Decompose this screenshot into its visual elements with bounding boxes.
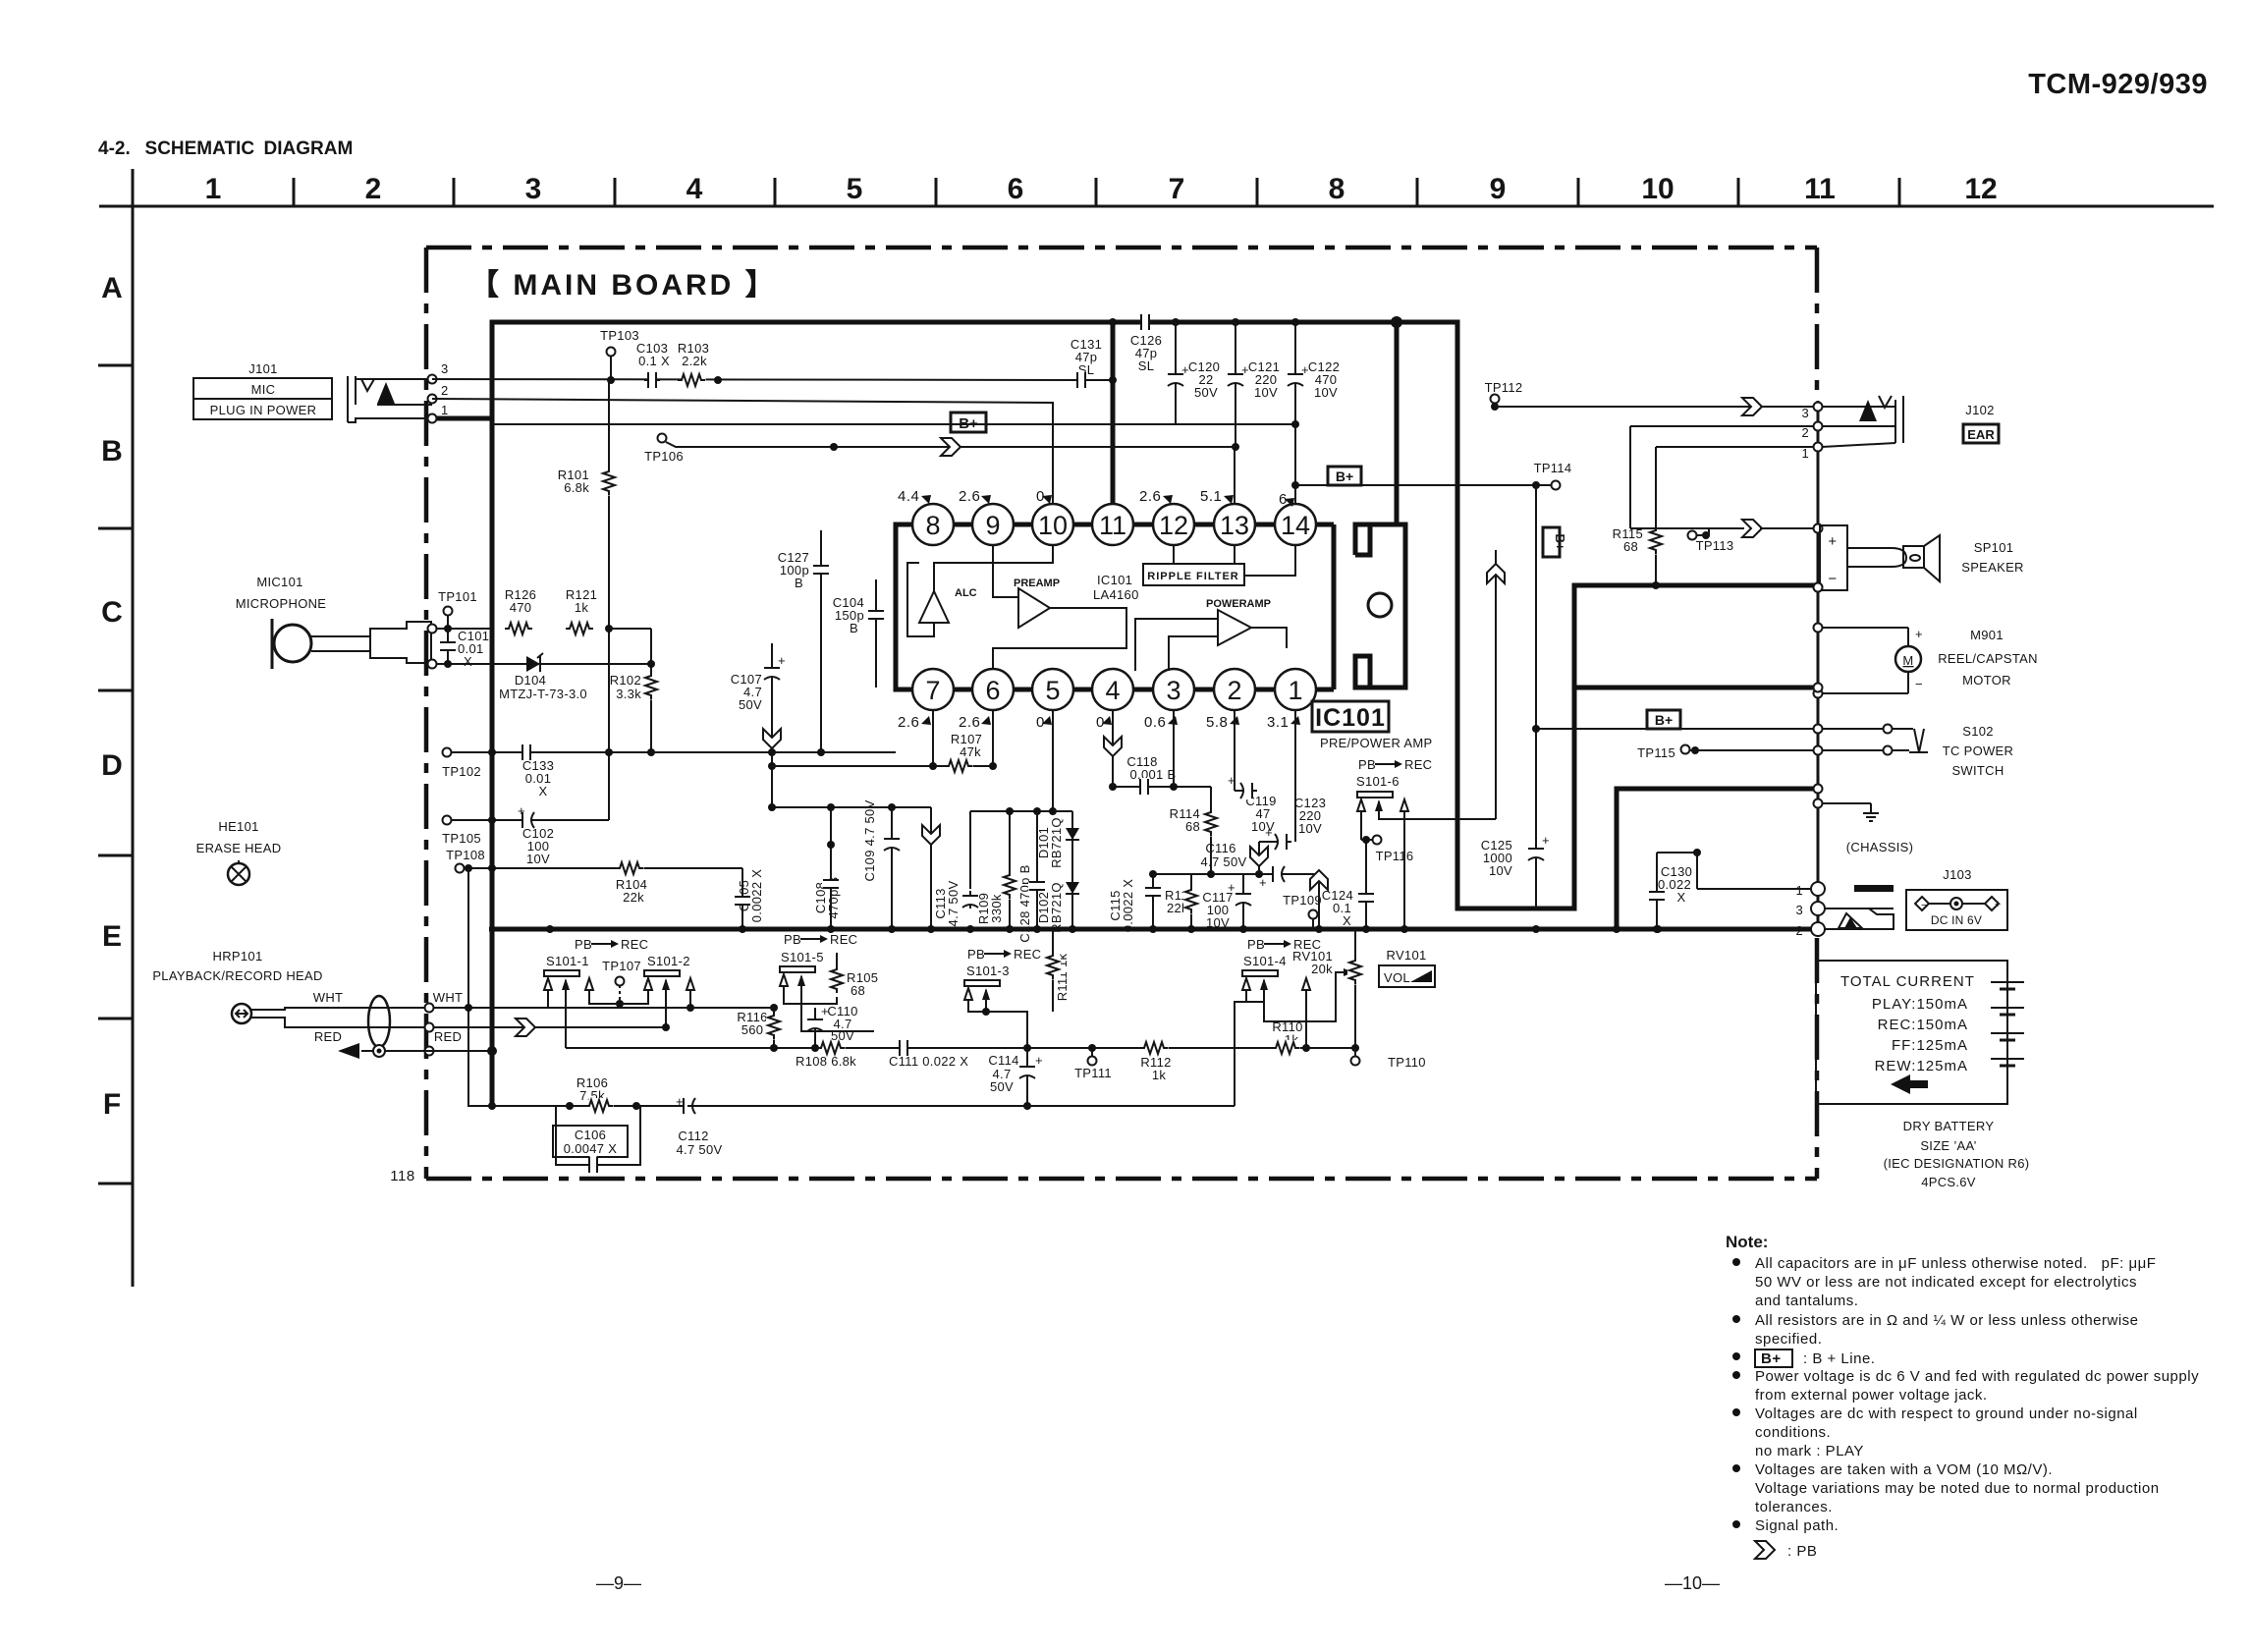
svg-text:5: 5 — [1045, 676, 1060, 705]
svg-text:11: 11 — [1804, 173, 1836, 205]
svg-text:RIPPLE FILTER: RIPPLE FILTER — [1147, 571, 1238, 582]
wire pin13 stub — [1234, 447, 1235, 504]
signal arrow down mid — [930, 807, 932, 929]
wire J102 pin1 row — [1656, 446, 1814, 448]
svg-text:X: X — [539, 784, 548, 798]
svg-text:X: X — [464, 654, 472, 669]
svg-text:SIZE ’AA’: SIZE ’AA’ — [1920, 1138, 1976, 1153]
svg-text:RB721Q: RB721Q — [1049, 817, 1064, 868]
svg-text:−: − — [1921, 900, 1927, 911]
svg-text:0.0022 X: 0.0022 X — [1121, 879, 1135, 932]
svg-text:F: F — [103, 1088, 121, 1121]
head connector — [232, 1004, 251, 1023]
svg-text:50V: 50V — [1194, 385, 1218, 400]
svg-text:C114: C114 — [988, 1053, 1018, 1068]
svg-text:22k: 22k — [623, 890, 644, 905]
pin 13 — [1214, 504, 1255, 545]
J101 MIC box — [193, 378, 332, 399]
wire RED row — [425, 1023, 434, 1032]
signal arrow head out — [516, 1019, 535, 1036]
svg-text:C112: C112 — [678, 1129, 708, 1143]
svg-text:: PB: : PB — [1787, 1543, 1817, 1560]
bus open circles — [1814, 583, 1823, 592]
svg-text:3.1: 3.1 — [1267, 714, 1289, 731]
pin 7 — [912, 669, 954, 710]
svg-text:PLAY:150mA: PLAY:150mA — [1872, 996, 1968, 1013]
svg-text:3: 3 — [1795, 903, 1803, 917]
wire mic cold row — [431, 663, 492, 665]
svg-text:S101-6: S101-6 — [1356, 774, 1400, 789]
svg-text:: B + Line.: : B + Line. — [1803, 1350, 1875, 1367]
svg-text:0.0022 X: 0.0022 X — [749, 869, 764, 922]
svg-text:3: 3 — [441, 361, 449, 376]
J101 PLUG IN POWER box — [193, 399, 332, 419]
J101 pin 1 — [428, 414, 437, 423]
svg-text:TC POWER: TC POWER — [1943, 743, 2013, 758]
svg-text:MIC101: MIC101 — [256, 575, 302, 589]
svg-text:68: 68 — [1185, 819, 1200, 834]
svg-text:D104: D104 — [515, 673, 546, 688]
svg-text:+: + — [1228, 773, 1235, 788]
wire WHT row — [425, 1004, 434, 1013]
svg-text:Voltage variations may be note: Voltage variations may be noted due to n… — [1755, 1480, 2160, 1497]
wire ground bottom bus — [489, 927, 1818, 932]
svg-text:FF:125mA: FF:125mA — [1892, 1037, 1968, 1054]
svg-text:4: 4 — [1105, 676, 1120, 705]
wire pin11 supply stub — [1111, 322, 1116, 505]
svg-text:6.8k: 6.8k — [564, 480, 589, 495]
B+ vertical label box — [1543, 527, 1560, 557]
IC101 reference label box — [1312, 701, 1389, 732]
svg-text:TP112: TP112 — [1485, 380, 1523, 395]
svg-text:J102: J102 — [1965, 403, 1994, 417]
svg-text:10V: 10V — [1254, 385, 1278, 400]
wire pin6 stub — [992, 710, 994, 766]
svg-text:2: 2 — [1795, 923, 1803, 938]
svg-text:4.7 50V: 4.7 50V — [1201, 854, 1247, 869]
ruler ticks — [294, 178, 1899, 206]
svg-text:+: + — [1035, 1053, 1043, 1068]
svg-text:2: 2 — [441, 383, 449, 398]
svg-text:2.6: 2.6 — [1139, 488, 1161, 505]
signal arrow down right — [1258, 842, 1260, 874]
capacitor C106 box — [553, 1126, 628, 1157]
junction on bus — [1391, 316, 1402, 328]
svg-text:TP114: TP114 — [1534, 461, 1572, 475]
capacitor C133 — [519, 743, 534, 761]
signal arrow speaker row — [1742, 520, 1762, 537]
voltage 2.6 pin12 — [1139, 488, 1173, 505]
J103 DC IN box — [1906, 890, 2007, 930]
svg-text:PB: PB — [1358, 757, 1376, 772]
svg-text:13: 13 — [1220, 511, 1249, 540]
wire pin5 stub down — [1052, 710, 1054, 811]
pin 1 — [1275, 669, 1316, 710]
svg-text:2.6: 2.6 — [959, 714, 980, 731]
wire row TP102 extension — [651, 751, 896, 753]
svg-text:PB: PB — [575, 937, 592, 952]
main board dashed border right — [1815, 248, 1820, 401]
svg-text:B+: B+ — [1655, 712, 1673, 728]
wire row 1126 right part — [687, 1105, 1235, 1107]
svg-text:10: 10 — [1641, 173, 1674, 205]
svg-text:−: − — [1915, 677, 1923, 691]
svg-text:WHT: WHT — [433, 990, 464, 1005]
svg-text:2: 2 — [1227, 676, 1241, 705]
svg-text:B: B — [795, 576, 803, 590]
capacitor C122 — [1291, 318, 1299, 326]
svg-text:REW:125mA: REW:125mA — [1875, 1058, 1968, 1074]
svg-text:DRY BATTERY: DRY BATTERY — [1903, 1119, 1995, 1133]
svg-text:1k: 1k — [575, 600, 589, 615]
svg-text:B+: B+ — [1761, 1350, 1782, 1367]
svg-text:8: 8 — [1329, 173, 1345, 205]
B+ label box pins — [1328, 467, 1361, 485]
svg-text:+: + — [1259, 875, 1267, 890]
svg-text:4-2. SCHEMATIC DIAGRAM: 4-2. SCHEMATIC DIAGRAM — [98, 138, 353, 159]
wire thick battery branch — [1617, 789, 1814, 929]
chassis ground — [1814, 799, 1823, 808]
svg-text:C109 4.7 50V: C109 4.7 50V — [862, 799, 877, 881]
svg-text:E: E — [102, 920, 122, 953]
svg-text:A: A — [101, 272, 123, 304]
svg-text:R108 6.8k: R108 6.8k — [796, 1054, 856, 1069]
svg-text:3: 3 — [1801, 406, 1809, 420]
svg-text:+: + — [1265, 825, 1273, 840]
signal arrow preamp in — [941, 438, 961, 456]
wire TP108 row — [492, 867, 742, 869]
pin 9 — [972, 504, 1014, 545]
wire pin3 stub down — [1173, 710, 1175, 787]
signal arrow to ear — [1742, 398, 1762, 415]
pin 10 — [1032, 504, 1073, 545]
svg-text:TP106: TP106 — [644, 449, 684, 464]
wire mic to connector — [311, 635, 370, 637]
wire J103 pin1 row — [1697, 888, 1811, 890]
voltage 0 pin4 — [1096, 714, 1112, 731]
svg-text:0.001 B: 0.001 B — [1130, 767, 1177, 782]
svg-text:TP105: TP105 — [442, 831, 481, 846]
svg-text:TP102: TP102 — [442, 764, 481, 779]
POWERAMP — [1218, 610, 1251, 645]
svg-text:+: + — [1915, 627, 1923, 641]
svg-text:B+: B+ — [959, 415, 978, 432]
voltage 6 pin14 — [1279, 491, 1294, 508]
svg-text:Power voltage is dc 6 V and fe: Power voltage is dc 6 V and fed with reg… — [1755, 1368, 2199, 1385]
svg-text:1: 1 — [1795, 883, 1803, 898]
wire B+ top bus — [492, 322, 1818, 929]
svg-text:4.4: 4.4 — [898, 488, 919, 505]
svg-text:RB721Q: RB721Q — [1049, 882, 1064, 933]
svg-text:8: 8 — [925, 511, 940, 540]
svg-text:B+: B+ — [1336, 468, 1353, 484]
wire row 1067 — [566, 1047, 1355, 1049]
svg-text:12: 12 — [1964, 173, 1997, 205]
wire left edge lower extension — [490, 929, 495, 1106]
svg-text:REC: REC — [1014, 947, 1041, 962]
wire J101 pin2 branch to pin10 — [432, 399, 1053, 504]
svg-text:TP101: TP101 — [438, 589, 477, 604]
svg-text:TP116: TP116 — [1376, 849, 1414, 863]
wire J101 pin1 thick — [432, 416, 492, 421]
B+ label box mid — [951, 413, 986, 432]
svg-text:47k: 47k — [960, 744, 981, 759]
svg-text:R102: R102 — [610, 673, 641, 688]
wire mic line row — [432, 379, 1081, 380]
wire ALC feedback — [907, 563, 934, 636]
left axis ticks — [98, 365, 133, 1184]
svg-text:118: 118 — [390, 1168, 414, 1184]
svg-text:—9—: —9— — [596, 1573, 641, 1593]
signal arrow down left of pin7 — [763, 729, 781, 748]
svg-text:ALC: ALC — [955, 587, 977, 599]
svg-text:1: 1 — [205, 173, 222, 205]
svg-text:PB: PB — [967, 947, 985, 962]
svg-text:B+: B+ — [1553, 534, 1567, 551]
svg-text:+: + — [821, 1004, 829, 1019]
svg-text:from external power voltage ja: from external power voltage jack. — [1755, 1387, 1988, 1404]
svg-text:REEL/CAPSTAN: REEL/CAPSTAN — [1938, 651, 2038, 666]
svg-text:C106: C106 — [575, 1128, 606, 1142]
svg-text:S101-3: S101-3 — [966, 964, 1010, 978]
svg-text:5.1: 5.1 — [1200, 488, 1222, 505]
wire S101-6 right stub — [1403, 811, 1405, 929]
svg-text:50 WV or less are not indicate: 50 WV or less are not indicated except f… — [1755, 1274, 2137, 1291]
svg-text:+: + — [518, 803, 525, 818]
voltage 5.1 pin13 — [1200, 488, 1234, 505]
svg-text:7: 7 — [1169, 173, 1185, 205]
svg-text:All capacitors are in μF unles: All capacitors are in μF unless otherwis… — [1755, 1255, 2156, 1272]
svg-text:(CHASSIS): (CHASSIS) — [1846, 840, 1913, 854]
svg-text:11: 11 — [1099, 511, 1126, 540]
left axis line — [132, 169, 135, 1287]
svg-text:and tantalums.: and tantalums. — [1755, 1293, 1858, 1309]
svg-text:0.6: 0.6 — [1144, 714, 1166, 731]
svg-text:J103: J103 — [1943, 867, 1971, 882]
svg-text:IC101: IC101 — [1315, 704, 1386, 732]
IC101 right body with notches — [1355, 524, 1405, 688]
svg-text:TP115: TP115 — [1637, 745, 1675, 760]
svg-text:PLAYBACK/RECORD HEAD: PLAYBACK/RECORD HEAD — [152, 968, 322, 983]
svg-text:EAR: EAR — [1967, 427, 1995, 442]
svg-text:SP101: SP101 — [1974, 540, 2014, 555]
J102 jack pins — [1814, 403, 1823, 412]
voltage 0.6 pin3 — [1144, 714, 1178, 731]
PREAMP — [1018, 588, 1050, 628]
svg-text:50V: 50V — [990, 1079, 1014, 1094]
svg-text:MTZJ-T-73-3.0: MTZJ-T-73-3.0 — [499, 687, 587, 701]
svg-text:S101-1: S101-1 — [546, 954, 589, 968]
wire poweramp lower input — [1169, 636, 1218, 671]
svg-text:SWITCH: SWITCH — [1951, 763, 2004, 778]
left axis row letters — [101, 272, 123, 1121]
wire TP114 vertical to C125 — [1535, 485, 1537, 909]
svg-text:6: 6 — [1008, 173, 1024, 205]
voltage 0 pin5 — [1036, 714, 1052, 731]
svg-text:2: 2 — [1801, 425, 1809, 440]
wire S102 upper row — [1536, 728, 1814, 730]
svg-text:68: 68 — [1623, 539, 1638, 554]
svg-text:MIC: MIC — [251, 382, 276, 397]
svg-text:RED: RED — [314, 1029, 342, 1044]
node TP106 — [658, 434, 667, 443]
signal arrow pin4 — [1112, 710, 1114, 787]
voltage 3.1 pin1 — [1267, 714, 1300, 731]
svg-text:+: + — [1542, 833, 1550, 848]
svg-text:B: B — [850, 621, 858, 635]
svg-text:TOTAL CURRENT: TOTAL CURRENT — [1840, 973, 1975, 990]
svg-text:TP109: TP109 — [1283, 893, 1322, 908]
svg-text:TP113: TP113 — [1696, 538, 1734, 553]
ALC amp — [919, 591, 949, 623]
svg-text:J101: J101 — [248, 361, 277, 376]
svg-text:+: + — [1828, 533, 1837, 550]
pin 2 — [1214, 669, 1255, 710]
node TP110 — [1351, 1044, 1359, 1052]
pin 3 — [1153, 669, 1194, 710]
svg-text:C: C — [101, 596, 123, 629]
voltage 2.6 pin7 — [898, 714, 931, 731]
svg-text:Note:: Note: — [1726, 1233, 1768, 1251]
wire shield ground row — [425, 1047, 434, 1056]
svg-text:TP110: TP110 — [1388, 1055, 1426, 1070]
svg-text:12: 12 — [1159, 511, 1188, 540]
pin 8 — [912, 504, 954, 545]
svg-text:S101-2: S101-2 — [647, 954, 690, 968]
EAR box — [1963, 424, 1999, 443]
svg-text:3: 3 — [525, 173, 542, 205]
svg-text:M: M — [1902, 653, 1913, 668]
svg-text:50V: 50V — [739, 697, 762, 712]
ruler top line — [99, 205, 2214, 208]
pin 4 — [1092, 669, 1133, 710]
svg-text:0.1 X: 0.1 X — [638, 354, 670, 368]
wire thick branch to S102/B+ row — [1574, 686, 1814, 690]
main vertical bus right — [1817, 401, 1820, 935]
wire preamp output loop — [993, 608, 1126, 669]
capacitor C101 — [447, 629, 449, 664]
svg-text:SPEAKER: SPEAKER — [1961, 560, 2024, 575]
svg-text:C128 470p B: C128 470p B — [1017, 864, 1032, 942]
svg-text:4PCS.6V: 4PCS.6V — [1921, 1175, 1976, 1189]
wire pin9 to preamp — [993, 545, 1018, 597]
svg-text:TP108: TP108 — [446, 848, 485, 862]
svg-text:10V: 10V — [526, 852, 550, 866]
wire ripple filter to pin14 — [1244, 545, 1295, 576]
wire S101-1 to bus — [547, 990, 549, 1008]
J103 plug outline — [1825, 909, 1894, 929]
svg-text:SL: SL — [1138, 358, 1155, 373]
voltage 0 pin10 — [1036, 488, 1052, 505]
svg-text:+: + — [1228, 880, 1235, 895]
svg-text:specified.: specified. — [1755, 1331, 1822, 1348]
battery box — [1816, 961, 2007, 1104]
svg-text:10V: 10V — [1298, 821, 1322, 836]
svg-text:560: 560 — [741, 1022, 764, 1037]
voltage 4.4 pin8 — [898, 488, 931, 505]
svg-text:4.7 50V: 4.7 50V — [677, 1142, 723, 1157]
wire IC supply stub — [1395, 322, 1400, 524]
svg-text:9: 9 — [1490, 173, 1507, 205]
svg-text:TCM-929/939: TCM-929/939 — [2028, 69, 2208, 100]
wire pin7 stub — [932, 710, 934, 766]
svg-text:2.2k: 2.2k — [682, 354, 707, 368]
svg-text:3: 3 — [1166, 676, 1180, 705]
svg-text:ERASE HEAD: ERASE HEAD — [196, 841, 282, 855]
svg-text:HE101: HE101 — [218, 819, 258, 834]
svg-text:M901: M901 — [1970, 628, 2004, 642]
ruler column numbers — [205, 173, 1998, 205]
motor M901 — [1814, 624, 1823, 633]
svg-text:—10—: —10— — [1665, 1573, 1720, 1593]
svg-text:1: 1 — [441, 403, 449, 417]
wire J102 pin3 row — [1495, 406, 1814, 408]
node TP116 — [1360, 811, 1362, 840]
wire S101-4 stubs — [1246, 990, 1264, 1002]
J101 jack symbol — [348, 376, 432, 422]
svg-text:1: 1 — [1288, 676, 1302, 705]
svg-text:RV101: RV101 — [1386, 948, 1426, 963]
svg-text:5.8: 5.8 — [1206, 714, 1228, 731]
voltage 5.8 pin2 — [1206, 714, 1239, 731]
wire mid row upper — [970, 810, 1072, 812]
svg-text:conditions.: conditions. — [1755, 1424, 1831, 1441]
svg-text:TP103: TP103 — [600, 328, 639, 343]
svg-text:S101-4: S101-4 — [1243, 954, 1287, 968]
wire poweramp input — [1135, 619, 1218, 671]
svg-text:1: 1 — [1801, 446, 1809, 461]
svg-text:IC101: IC101 — [1097, 573, 1132, 587]
svg-text:【 MAIN BOARD 】: 【 MAIN BOARD 】 — [469, 269, 778, 302]
svg-text:PRE/POWER AMP: PRE/POWER AMP — [1320, 736, 1432, 750]
svg-text:Voltages are dc with respect t: Voltages are dc with respect to ground u… — [1755, 1405, 2138, 1422]
svg-text:C116: C116 — [1205, 841, 1235, 855]
svg-text:D: D — [101, 749, 123, 782]
svg-text:+: + — [1995, 899, 2001, 910]
wire pin13 to ripple filter — [1234, 545, 1235, 564]
svg-text:TP111: TP111 — [1074, 1066, 1112, 1080]
svg-text:0.022: 0.022 — [1658, 877, 1691, 892]
svg-text:(IEC DESIGNATION R6): (IEC DESIGNATION R6) — [1884, 1156, 2030, 1171]
wire J102 pin2 row — [1630, 425, 1814, 427]
main board dashed border left — [424, 248, 429, 1179]
voltage 2.6 pin9 — [959, 488, 991, 505]
voltage 2.6 pin6 — [959, 714, 991, 731]
svg-text:7: 7 — [925, 676, 940, 705]
B+ label box S102 — [1814, 684, 1823, 692]
svg-text:REC: REC — [830, 932, 857, 947]
svg-text:3.3k: 3.3k — [616, 687, 641, 701]
svg-text:DC IN 6V: DC IN 6V — [1931, 913, 1982, 927]
svg-text:2: 2 — [365, 173, 382, 205]
svg-text:0.0047 X: 0.0047 X — [564, 1141, 617, 1156]
RIPPLE FILTER block — [1143, 564, 1244, 585]
svg-text:10V: 10V — [1206, 915, 1230, 930]
wire pin10 to ALC — [934, 545, 1053, 591]
pin 5 — [1032, 669, 1073, 710]
svg-text:470: 470 — [510, 600, 532, 615]
svg-text:B: B — [101, 435, 123, 468]
svg-text:TP107: TP107 — [602, 959, 641, 973]
wire row 822 — [772, 806, 931, 808]
svg-text:S102: S102 — [1962, 724, 1994, 739]
svg-text:no mark : PLAY: no mark : PLAY — [1755, 1443, 1864, 1459]
capacitor C121 — [1232, 318, 1239, 326]
J103 plug bar — [1854, 885, 1894, 892]
battery arrow — [1891, 1074, 1928, 1094]
svg-text:1k: 1k — [1152, 1068, 1167, 1082]
wire B+ row right — [1295, 484, 1552, 486]
